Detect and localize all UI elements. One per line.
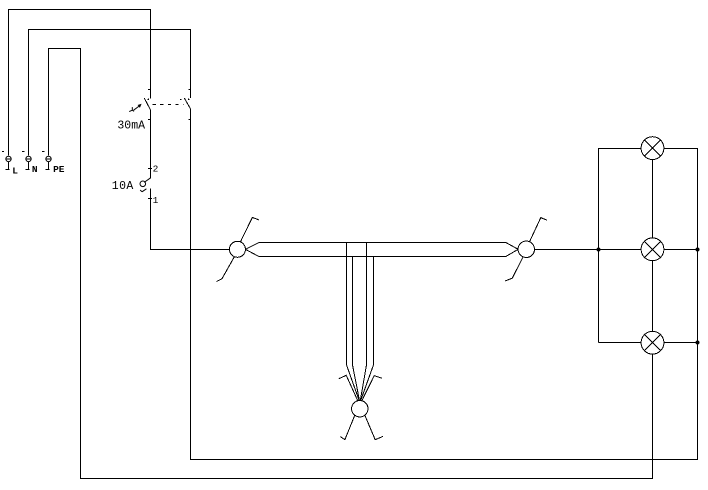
node at right riser E3 [696,341,700,345]
svg-text:10A: 10A [112,180,134,193]
lamp E3 [641,331,664,354]
J1 stub SW [216,257,234,282]
breaker 10A [140,169,152,199]
RCD trip arrow [134,104,142,110]
svg-text:PE: PE [53,164,65,175]
terminal L [2,152,11,170]
svg-text:1: 1 [153,195,159,206]
lamp E2 [641,238,664,261]
wire lamp E3 right [664,342,698,344]
wire riser to lamp E1 [599,148,641,150]
wire J2 to lamp row [535,249,641,251]
RCD right pole contact [184,90,191,120]
junction box J2 [518,241,534,257]
terminal N [22,152,31,170]
J2 stub SW [505,257,523,281]
wire J1 to J2 upper [245,243,518,250]
RCD sensor squiggle [129,107,134,112]
wire breaker to left junction [151,188,230,249]
J3 stub NW [339,375,358,401]
wire J1 to J2 lower [245,249,518,256]
svg-text:L: L [12,166,18,177]
wire riser to lamp E3 [599,342,641,344]
J3 stub NE [362,376,382,401]
lamp E1 [641,137,664,160]
J3 stub SW [340,416,355,440]
J2 stub NE [530,218,548,242]
wire N rail: terminal N up, across, down to RCD right pole [29,30,191,156]
wire lamp E2 to E3 [652,261,654,332]
junction box J3 (bottom) [352,401,368,417]
J3 stub SE [365,416,383,440]
node at right riser E2 [696,248,700,252]
svg-text:30mA: 30mA [117,119,145,132]
svg-text:N: N [32,164,38,175]
drop wire A [346,243,348,365]
wire lamp E1 to E2 [652,160,654,238]
node at left riser [597,248,601,252]
J1 stub NE [240,217,259,242]
RCD left pole contact [144,90,150,120]
wire lamp E2 right [664,249,698,251]
wire from RCD left pole down to breaker [150,109,152,178]
left riser [598,148,600,342]
linkage dot [180,99,181,101]
terminal PE [42,152,51,170]
svg-text:2: 2 [153,164,159,175]
drop wire D [373,257,375,365]
wire N pole down and along bottom to right riser [191,109,698,460]
junction box J1 [229,241,245,257]
wire lamp E1 right [664,148,698,150]
drop wire C [366,243,368,365]
wire PE rail: terminal PE up, across, down left side, along bottom, up to lamp bottom [49,49,653,479]
RCD linkage dashed line [153,104,184,106]
drop wire B [352,257,354,365]
wire L rail: terminal L up, across top, down to RCD left pole [9,10,151,156]
